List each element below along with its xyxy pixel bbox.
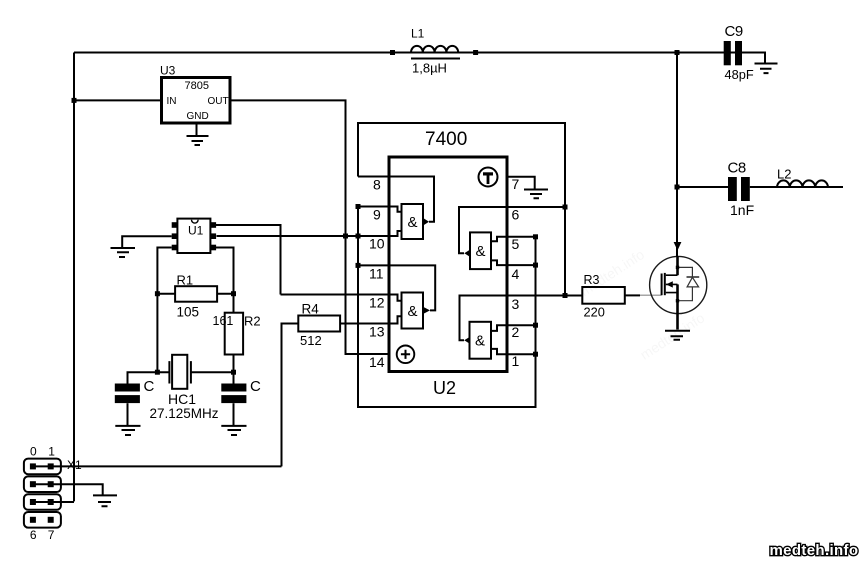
svg-text:6: 6 [512,207,520,223]
svg-text:1,8µH: 1,8µH [412,61,447,76]
svg-text:2: 2 [512,324,520,340]
svg-text:OUT: OUT [208,96,229,107]
svg-text:6: 6 [30,528,37,542]
svg-text:10: 10 [369,236,385,252]
svg-text:12: 12 [369,295,385,311]
svg-text:HC1: HC1 [168,391,196,407]
svg-text:&: & [408,214,418,231]
svg-text:7400: 7400 [425,129,467,150]
svg-text:3: 3 [512,296,520,312]
svg-text:medteh.info: medteh.info [770,542,859,559]
svg-text:7805: 7805 [185,80,209,92]
svg-text:L1: L1 [411,27,425,41]
svg-text:27.125MHz: 27.125MHz [150,406,219,421]
svg-text:9: 9 [373,207,381,223]
svg-text:11: 11 [369,265,384,281]
svg-text:&: & [476,243,486,260]
svg-text:5: 5 [512,236,520,252]
svg-text:14: 14 [369,354,385,370]
svg-text:U2: U2 [433,378,456,398]
svg-text:8: 8 [373,177,381,193]
svg-text:L2: L2 [777,167,791,182]
svg-text:512: 512 [300,333,322,348]
svg-text:1: 1 [48,445,55,459]
svg-text:7: 7 [48,528,55,542]
svg-text:7: 7 [512,176,520,192]
svg-text:C9: C9 [725,23,743,40]
svg-text:1nF: 1nF [730,202,754,218]
svg-text:0: 0 [30,445,37,459]
svg-text:105: 105 [177,305,200,320]
svg-text:X1: X1 [67,458,82,472]
svg-text:R2: R2 [244,314,261,329]
svg-text:&: & [408,303,418,320]
svg-text:C: C [144,378,155,395]
svg-text:C8: C8 [728,160,746,177]
svg-text:C: C [250,378,261,395]
svg-text:1: 1 [512,353,520,369]
svg-text:R1: R1 [177,273,194,288]
svg-text:48pF: 48pF [725,67,754,82]
svg-text:13: 13 [369,324,385,340]
svg-text:R3: R3 [584,273,600,287]
svg-text:IN: IN [167,96,177,107]
svg-text:R4: R4 [302,302,320,317]
svg-text:4: 4 [512,266,520,282]
svg-text:U3: U3 [160,64,176,78]
svg-text:220: 220 [584,305,605,320]
svg-text:&: & [475,333,485,350]
svg-text:GND: GND [187,111,209,122]
svg-text:161: 161 [213,314,234,328]
svg-text:U1: U1 [188,224,204,238]
